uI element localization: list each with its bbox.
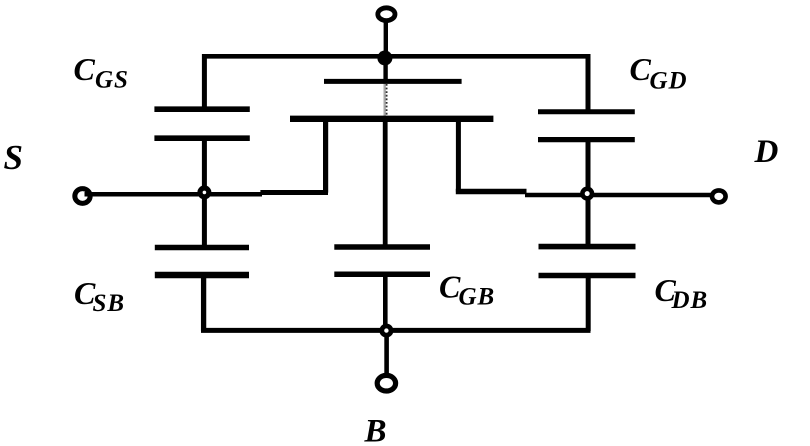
- node: gate junction on top rail: [377, 51, 392, 66]
- label C_GS: [74, 51, 129, 94]
- wire: left column C_GS to C_SB through source node: [202, 141, 207, 246]
- capacitor C_DB: [539, 247, 636, 276]
- capacitor C_GB: [334, 247, 430, 274]
- node: source junction: [200, 188, 209, 197]
- transistor M1: gate plate: [324, 79, 462, 84]
- wire: right column C_GD to C_DB through drain node: [586, 141, 591, 245]
- node: bulk junction on bottom rail: [382, 326, 391, 335]
- wire: left column C_SB to bottom rail: [201, 277, 206, 331]
- wire: gate vertical from node to gate plate: [383, 57, 387, 84]
- svg-text:D: D: [754, 134, 779, 170]
- capacitor C_GS: [154, 109, 249, 138]
- terminal S (left circle): [75, 189, 90, 204]
- wire: top gate rail: [202, 54, 590, 59]
- wire: right column C_DB to bottom rail: [586, 277, 591, 331]
- wire: D lead: [525, 193, 713, 198]
- svg-text:GD: GD: [650, 68, 688, 95]
- wire: center column channel to C_GB: [383, 121, 388, 245]
- label D: [754, 134, 779, 170]
- label S: [4, 138, 23, 177]
- oxide: dithered gray gate oxide segment: [384, 84, 387, 117]
- label C_SB: [74, 275, 125, 317]
- svg-text:GS: GS: [95, 67, 129, 94]
- svg-text:S: S: [4, 138, 23, 177]
- wire: channel to drain drop: [456, 116, 461, 192]
- wire: center column C_GB to bottom rail: [383, 277, 388, 331]
- svg-text:B: B: [364, 414, 387, 446]
- capacitor C_SB: [155, 248, 249, 276]
- wire: stub from top rail down to C_GS: [202, 54, 207, 108]
- wire: stub from top rail down to C_GD: [586, 54, 591, 111]
- node: drain junction: [582, 189, 592, 199]
- label C_DB: [655, 272, 709, 314]
- svg-text:GB: GB: [459, 284, 496, 311]
- wire: drain thick segment: [456, 189, 527, 195]
- terminal D (right circle): [712, 190, 726, 202]
- transistor M1: channel plate: [290, 116, 493, 122]
- svg-text:C: C: [74, 51, 96, 87]
- label C_GB: [439, 269, 495, 311]
- wire: channel to source drop: [323, 116, 328, 193]
- svg-text:SB: SB: [93, 290, 126, 317]
- capacitor C_GD: [538, 112, 635, 140]
- terminal B (bottom circle): [377, 375, 395, 391]
- label C_GD: [630, 51, 688, 95]
- svg-text:C: C: [630, 51, 652, 87]
- wire: bulk stub down to terminal B: [384, 331, 389, 375]
- label B: [364, 414, 387, 446]
- wire: source jog segment: [260, 190, 328, 195]
- terminal G (gate, top circle): [378, 8, 395, 57]
- wire: S lead: [85, 192, 263, 197]
- svg-text:DB: DB: [671, 287, 709, 314]
- wire: bottom bulk rail: [201, 328, 591, 333]
